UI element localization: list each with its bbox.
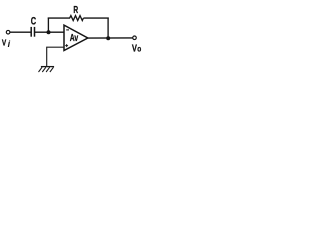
svg-text:Av: Av bbox=[70, 32, 79, 44]
wire noninverting input to ground bbox=[47, 47, 64, 66]
capacitor C bbox=[31, 27, 34, 37]
wire op-amp output bbox=[88, 37, 133, 39]
resistor R bbox=[70, 16, 84, 21]
wire feedback top right bbox=[83, 17, 108, 19]
svg-text:i: i bbox=[8, 39, 11, 49]
minus sign bbox=[66, 29, 69, 31]
wire feedback top left bbox=[48, 17, 70, 19]
plus sign bbox=[65, 44, 68, 47]
junction node A bbox=[47, 30, 51, 34]
svg-text:V: V bbox=[132, 43, 137, 54]
svg-text:V: V bbox=[2, 38, 7, 48]
label Vo bbox=[132, 43, 142, 54]
wire input to capacitor bbox=[10, 31, 31, 33]
svg-text:C: C bbox=[31, 15, 37, 27]
label Vi bbox=[2, 38, 11, 49]
op-amp U1 bbox=[64, 25, 88, 50]
output terminal bbox=[133, 36, 137, 40]
node B output junction bbox=[106, 36, 110, 40]
wire feedback right vertical bbox=[107, 18, 109, 39]
wire feedback left vertical bbox=[47, 18, 49, 33]
svg-text:R: R bbox=[73, 4, 78, 16]
input terminal bbox=[6, 30, 10, 34]
wire capacitor to op-amp inverting input bbox=[35, 31, 65, 33]
ground bbox=[39, 67, 55, 72]
svg-text:o: o bbox=[137, 44, 141, 54]
